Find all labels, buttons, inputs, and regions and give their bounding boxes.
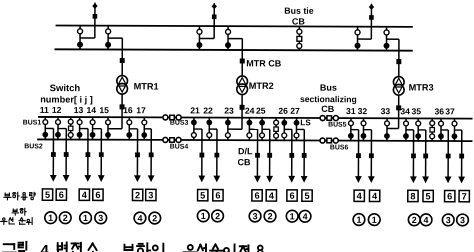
- svg-text:1: 1: [372, 215, 377, 225]
- svg-text:5: 5: [45, 190, 50, 200]
- svg-text:BUS5: BUS5: [328, 122, 347, 129]
- svg-text:14: 14: [86, 105, 96, 115]
- svg-text:13: 13: [74, 105, 84, 115]
- svg-text:3: 3: [148, 190, 153, 200]
- svg-text:5: 5: [426, 191, 431, 201]
- svg-text:MTR1: MTR1: [134, 81, 159, 91]
- svg-text:2: 2: [135, 190, 140, 200]
- svg-text:6: 6: [215, 191, 220, 201]
- svg-text:11: 11: [40, 105, 49, 115]
- svg-text:3: 3: [446, 215, 451, 225]
- svg-text:MTR CB: MTR CB: [246, 58, 282, 68]
- svg-text:34: 34: [400, 106, 410, 116]
- svg-text:4: 4: [424, 215, 429, 225]
- svg-text:6: 6: [447, 191, 452, 201]
- svg-text:BUS1: BUS1: [23, 119, 42, 126]
- svg-text:D/L: D/L: [238, 146, 253, 156]
- svg-text:1: 1: [83, 213, 88, 223]
- svg-text:6: 6: [254, 191, 259, 201]
- svg-text:4: 4: [137, 213, 142, 223]
- svg-text:Bus: Bus: [320, 83, 337, 93]
- svg-text:2: 2: [152, 213, 157, 223]
- svg-text:23: 23: [224, 106, 234, 116]
- svg-text:2: 2: [63, 213, 68, 223]
- svg-text:CB: CB: [292, 17, 306, 27]
- svg-text:3: 3: [98, 213, 103, 223]
- svg-text:number[ i j ]: number[ i j ]: [40, 94, 93, 104]
- svg-text:25: 25: [256, 106, 266, 116]
- svg-text:5: 5: [200, 190, 205, 200]
- svg-text:BUS6: BUS6: [330, 144, 349, 151]
- svg-text:12: 12: [52, 105, 62, 115]
- svg-text:3: 3: [460, 215, 465, 225]
- svg-text:2: 2: [412, 215, 417, 225]
- svg-text:8: 8: [410, 191, 415, 201]
- svg-text:27: 27: [290, 106, 300, 116]
- svg-text:5: 5: [304, 191, 309, 201]
- svg-text:4: 4: [303, 211, 308, 221]
- svg-text:3: 3: [253, 211, 258, 221]
- svg-text:1: 1: [290, 211, 295, 221]
- svg-text:Bus tie: Bus tie: [284, 6, 313, 16]
- svg-text:17: 17: [136, 105, 146, 115]
- svg-text:15: 15: [99, 105, 109, 115]
- svg-text:33: 33: [381, 106, 391, 116]
- svg-text:35: 35: [411, 106, 421, 116]
- svg-text:MTR3: MTR3: [409, 82, 434, 92]
- svg-text:CB: CB: [321, 104, 335, 114]
- svg-text:1: 1: [48, 213, 53, 223]
- svg-text:37: 37: [445, 106, 455, 116]
- svg-text:21: 21: [190, 105, 200, 115]
- svg-text:1: 1: [356, 215, 361, 225]
- svg-text:1: 1: [201, 211, 206, 221]
- svg-text:24: 24: [245, 106, 255, 116]
- svg-text:4: 4: [269, 191, 275, 201]
- svg-text:26: 26: [278, 106, 288, 116]
- svg-text:LS: LS: [300, 118, 311, 127]
- svg-text:22: 22: [203, 105, 213, 115]
- svg-text:6: 6: [289, 191, 294, 201]
- svg-text:Switch: Switch: [50, 83, 81, 94]
- svg-text:sectionalizing: sectionalizing: [300, 94, 357, 104]
- svg-text:7: 7: [462, 191, 467, 201]
- svg-text:4.: 4.: [40, 242, 53, 252]
- svg-text:BUS2: BUS2: [24, 143, 43, 150]
- svg-text:31: 31: [346, 106, 356, 116]
- svg-text:32: 32: [358, 106, 368, 116]
- svg-text:6: 6: [95, 190, 100, 200]
- svg-text:6: 6: [59, 190, 64, 200]
- svg-text:36: 36: [434, 106, 444, 116]
- svg-text:MTR2: MTR2: [249, 81, 274, 91]
- svg-text:16: 16: [123, 105, 133, 115]
- svg-text:2: 2: [268, 211, 273, 221]
- svg-text:CB: CB: [238, 157, 252, 167]
- svg-text:4: 4: [82, 190, 88, 200]
- svg-text:4: 4: [372, 191, 378, 201]
- svg-text:BUS3: BUS3: [170, 120, 189, 127]
- svg-text:2: 2: [215, 211, 220, 221]
- svg-text:BUS4: BUS4: [170, 144, 189, 151]
